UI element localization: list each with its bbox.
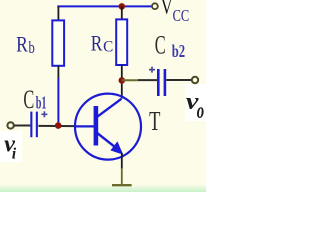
base bar xyxy=(94,106,99,146)
collector stroke xyxy=(97,99,122,118)
wire lead Rb top (black) xyxy=(57,6,59,21)
emitter stroke xyxy=(97,133,117,148)
plus sign Cb2 xyxy=(149,67,155,73)
wire collector to Cb2 (olive then dark) xyxy=(122,79,138,81)
svg-text:o: o xyxy=(197,98,204,123)
terminal Vcc circle xyxy=(152,3,158,9)
terminal vo circle xyxy=(192,77,198,83)
wire lead Rb bottom (black) xyxy=(57,66,59,79)
svg-text:R: R xyxy=(91,31,103,56)
junction dot collector node xyxy=(119,77,126,84)
svg-text:V: V xyxy=(161,0,173,19)
transistor body circle xyxy=(75,94,141,160)
svg-text:CC: CC xyxy=(173,6,190,25)
capacitor Cb2 xyxy=(157,69,160,96)
svg-text:b1: b1 xyxy=(36,92,47,112)
transistor T (BJT NPN) xyxy=(75,94,141,160)
plus sign Cb1 xyxy=(41,111,47,117)
junction dot base node xyxy=(55,122,62,129)
wire vi to Cb1 (dark) xyxy=(14,125,31,127)
emitter arrowhead xyxy=(110,141,123,154)
wire emitter lead (black) xyxy=(121,153,123,169)
resistor Rc xyxy=(116,19,127,65)
wire lead Rb to base node (blue) xyxy=(57,78,59,124)
wire Cb2 to output terminal (dark) xyxy=(166,79,191,81)
wire lead Rc bottom / collector (black) xyxy=(121,65,123,99)
wire emitter lead lower (olive) xyxy=(121,168,123,185)
wire base into transistor (blue) xyxy=(75,125,94,127)
wire top rail (blue) xyxy=(57,5,151,7)
svg-text:C: C xyxy=(103,38,113,55)
terminal vi circle xyxy=(7,122,13,128)
capacitor Cb1 xyxy=(30,112,32,138)
wire Cb1 to base node (dark) xyxy=(38,125,76,127)
ground xyxy=(112,184,132,186)
svg-text:i: i xyxy=(12,146,17,163)
white patch behind vo label xyxy=(185,84,206,121)
svg-text:b: b xyxy=(29,38,35,57)
white patch behind vi label xyxy=(0,131,22,162)
svg-text:C: C xyxy=(155,31,166,60)
svg-text:C: C xyxy=(23,85,34,114)
green strip bottom xyxy=(0,185,206,193)
junction dot top (collector rail) xyxy=(119,3,126,10)
svg-text:b2: b2 xyxy=(172,41,185,61)
wire lead Rc top (black) xyxy=(121,6,123,20)
resistor Rb xyxy=(52,20,64,65)
svg-text:R: R xyxy=(16,32,28,57)
svg-text:T: T xyxy=(149,106,161,136)
